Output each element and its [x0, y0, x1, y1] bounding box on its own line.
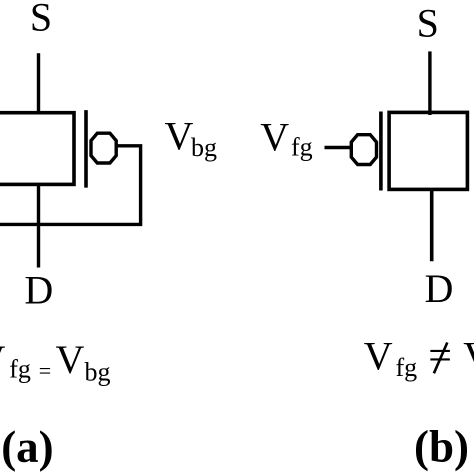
svg-text:S: S	[417, 0, 439, 45]
transistor M2 front-gate line (b)	[379, 112, 383, 191]
wire: source lead (a)	[37, 53, 40, 114]
equation V_fg = V_bg (a)	[0, 337, 111, 387]
wire: source lead (b)	[428, 51, 431, 115]
svg-text:Vbg: Vbg	[165, 114, 218, 162]
svg-text:V: V	[56, 337, 85, 382]
svg-text:V: V	[463, 333, 474, 378]
transistor M1 back-gate line (a)	[84, 110, 88, 188]
transistor M2 front-gate bubble (b)	[351, 135, 376, 165]
svg-text:=: =	[39, 358, 51, 383]
wire: drain lead (a)	[37, 183, 40, 268]
svg-text:D: D	[24, 268, 53, 313]
svg-text:V: V	[364, 333, 393, 378]
wire: V_fg lead to bubble (b)	[325, 146, 353, 149]
transistor M1 back-gate bubble (a)	[91, 133, 116, 163]
svg-text:fg: fg	[396, 353, 418, 382]
svg-text:S: S	[30, 0, 52, 39]
svg-text:bg: bg	[85, 358, 111, 387]
svg-text:D: D	[425, 266, 454, 311]
wire: drain lead (b)	[430, 188, 434, 261]
transistor M2 channel body (b)	[389, 112, 467, 189]
svg-text:fg: fg	[9, 355, 31, 384]
svg-text:(b): (b)	[414, 422, 469, 472]
transistor M1 channel body (a)	[0, 113, 74, 185]
svg-text:(a): (a)	[1, 422, 53, 472]
equation V_fg not equal V_bg (b)	[364, 333, 474, 382]
svg-text:Vfg: Vfg	[260, 114, 312, 161]
wire: back-gate feedback to front gate (a)	[0, 146, 141, 225]
svg-text:V: V	[0, 337, 6, 382]
